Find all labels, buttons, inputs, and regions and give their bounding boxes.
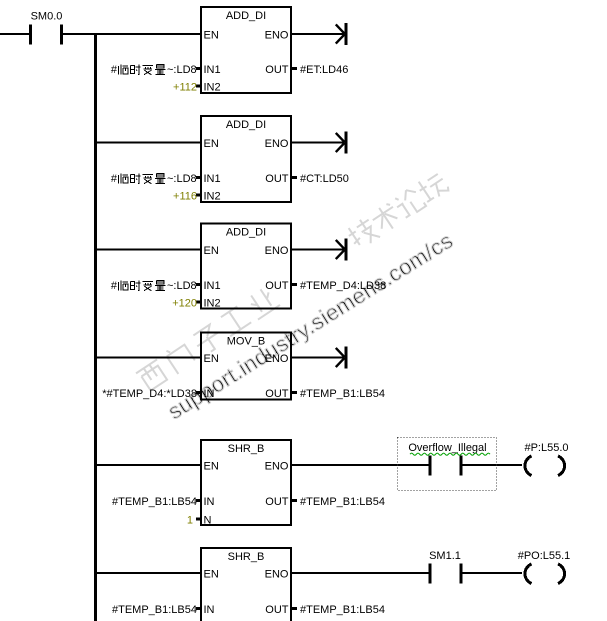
- svg-text:#TEMP_D4:LD38: #TEMP_D4:LD38: [300, 280, 386, 292]
- svg-text:#PO:L55.1: #PO:L55.1: [518, 550, 571, 562]
- svg-text:EN: EN: [204, 138, 219, 150]
- svg-text:IN1: IN1: [204, 280, 221, 292]
- svg-text:EN: EN: [204, 245, 219, 257]
- svg-text:#CT:LD50: #CT:LD50: [300, 173, 349, 185]
- svg-text:#: #: [111, 280, 118, 292]
- svg-text:SM1.1: SM1.1: [429, 550, 461, 562]
- svg-text:1: 1: [187, 515, 193, 527]
- svg-text:IN2: IN2: [204, 82, 221, 94]
- svg-text:ENO: ENO: [265, 461, 289, 473]
- svg-text:SM0.0: SM0.0: [31, 11, 63, 23]
- svg-text:OUT: OUT: [265, 280, 289, 292]
- svg-text:ENO: ENO: [265, 138, 289, 150]
- svg-text:IN2: IN2: [204, 191, 221, 203]
- svg-text:EN: EN: [204, 353, 219, 365]
- svg-text:IN: IN: [204, 388, 215, 400]
- svg-text:~:LD8: ~:LD8: [167, 173, 197, 185]
- svg-text:#TEMP_B1:LB54: #TEMP_B1:LB54: [112, 496, 197, 508]
- svg-text:#: #: [111, 64, 118, 76]
- svg-text:OUT: OUT: [265, 604, 289, 616]
- svg-text:#: #: [111, 173, 118, 185]
- svg-text:MOV_B: MOV_B: [227, 336, 266, 348]
- svg-text:*#TEMP_D4:*LD38: *#TEMP_D4:*LD38: [102, 388, 197, 400]
- svg-text:#TEMP_B1:LB54: #TEMP_B1:LB54: [112, 604, 197, 616]
- svg-text:ADD_DI: ADD_DI: [226, 227, 266, 239]
- svg-text:#P:L55.0: #P:L55.0: [524, 442, 568, 454]
- svg-text:ENO: ENO: [265, 353, 289, 365]
- svg-text:EN: EN: [204, 569, 219, 581]
- svg-text:~:LD8: ~:LD8: [167, 280, 197, 292]
- svg-text:IN: IN: [204, 604, 215, 616]
- svg-text:SHR_B: SHR_B: [228, 551, 265, 563]
- svg-text:OUT: OUT: [265, 496, 289, 508]
- svg-text:+116: +116: [173, 191, 197, 203]
- svg-text:IN: IN: [204, 496, 215, 508]
- svg-text:EN: EN: [204, 30, 219, 42]
- svg-text:#ET:LD46: #ET:LD46: [300, 64, 348, 76]
- svg-text:IN2: IN2: [204, 298, 221, 310]
- svg-text:ENO: ENO: [265, 245, 289, 257]
- svg-text:ENO: ENO: [265, 30, 289, 42]
- svg-text:EN: EN: [204, 461, 219, 473]
- svg-text:ENO: ENO: [265, 569, 289, 581]
- svg-text:OUT: OUT: [265, 173, 289, 185]
- svg-text:OUT: OUT: [265, 64, 289, 76]
- svg-text:#TEMP_B1:LB54: #TEMP_B1:LB54: [300, 496, 385, 508]
- svg-text:OUT: OUT: [265, 388, 289, 400]
- svg-text:IN1: IN1: [204, 173, 221, 185]
- svg-text:+112: +112: [173, 82, 197, 94]
- svg-text:#TEMP_B1:LB54: #TEMP_B1:LB54: [300, 604, 385, 616]
- svg-text:N: N: [204, 515, 212, 527]
- svg-text:+120: +120: [172, 298, 197, 310]
- svg-text:IN1: IN1: [204, 64, 221, 76]
- svg-text:SHR_B: SHR_B: [228, 443, 265, 455]
- svg-text:#TEMP_B1:LB54: #TEMP_B1:LB54: [300, 388, 385, 400]
- svg-text:ADD_DI: ADD_DI: [226, 10, 266, 22]
- svg-text:Overflow_Illegal: Overflow_Illegal: [408, 442, 486, 454]
- svg-text:~:LD8: ~:LD8: [167, 64, 197, 76]
- svg-text:ADD_DI: ADD_DI: [226, 119, 266, 131]
